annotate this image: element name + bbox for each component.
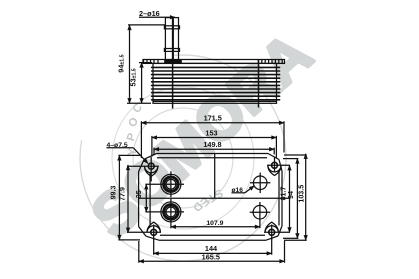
- dim 149.8: [154, 140, 274, 155]
- plate inner lines: [150, 158, 279, 236]
- label 2-phi16: [139, 9, 175, 18]
- top tab band: [143, 60, 285, 64]
- dim 103.5: [284, 154, 307, 240]
- watermark ring text COPY: [125, 102, 225, 214]
- boss TL: [127, 157, 159, 182]
- dim 144: [154, 239, 272, 255]
- boss BR: [264, 222, 290, 240]
- svg-text:94: 94: [287, 191, 295, 199]
- dim 77.9: [118, 165, 128, 233]
- watermark stamp outer circle: [80, 55, 286, 261]
- svg-text:81.7: 81.7: [279, 187, 287, 201]
- svg-text:35: 35: [135, 190, 143, 198]
- label phi16: [232, 186, 255, 194]
- dim 53: [128, 63, 152, 104]
- watermark group: [79, 20, 324, 261]
- stack bottom plate: [153, 100, 277, 102]
- watermark stamp innermost circle: [133, 108, 233, 208]
- dim 81.7: [279, 165, 289, 232]
- svg-text:107.9: 107.9: [206, 220, 223, 227]
- svg-text:165.5: 165.5: [202, 252, 220, 261]
- watermark stamp inner circle: [112, 87, 254, 229]
- svg-text:103.5: 103.5: [298, 185, 306, 203]
- dim 165.5: [139, 241, 285, 263]
- svg-text:149.8: 149.8: [203, 140, 221, 149]
- phi16 circle bottom: [250, 202, 270, 228]
- mid horizontal line: [139, 197, 290, 199]
- dim 35: [135, 184, 146, 212]
- mid vertical line: [214, 154, 216, 199]
- svg-text:77.9: 77.9: [118, 187, 126, 201]
- phi16 circle top: [250, 173, 270, 193]
- boss TR: [267, 157, 290, 176]
- fins: [152, 67, 280, 99]
- dim 99.3: [109, 155, 140, 240]
- dim 171.5: [141, 114, 284, 158]
- svg-text:153: 153: [205, 128, 217, 137]
- dim 153: [152, 128, 277, 158]
- dim 94r: [283, 159, 298, 239]
- left stud: [172, 18, 174, 109]
- boss BL: [127, 222, 161, 240]
- dim 94: [117, 25, 165, 103]
- right stud: [258, 60, 260, 108]
- pipe: [164, 18, 179, 60]
- port top: [145, 171, 184, 197]
- label 4-phi7.5: [107, 142, 149, 164]
- dim 107.9: [171, 220, 260, 227]
- plate outline: [139, 154, 282, 241]
- svg-text:171.5: 171.5: [204, 114, 222, 123]
- fin stack body: [153, 63, 277, 103]
- port bottom: [145, 199, 184, 228]
- svg-text:99.3: 99.3: [109, 186, 117, 200]
